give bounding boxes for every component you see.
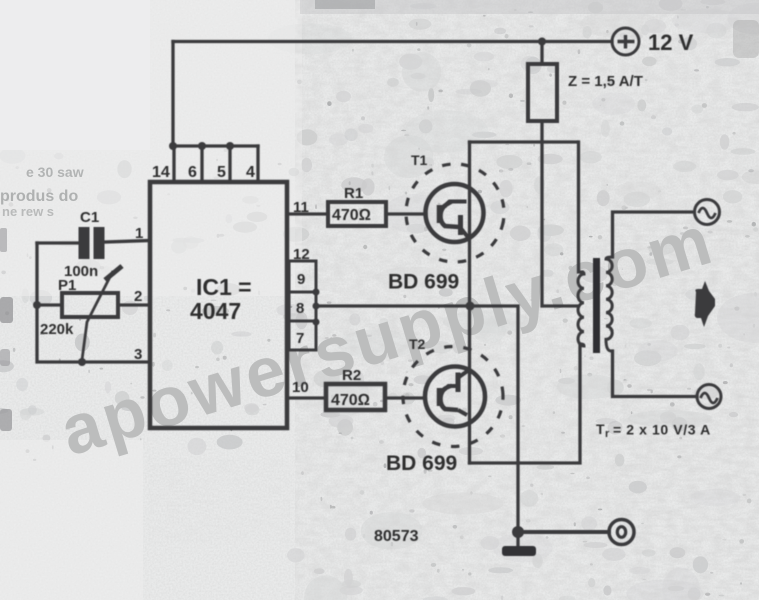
svg-text:14: 14 [152, 164, 170, 181]
svg-text:7: 7 [296, 330, 304, 347]
svg-text:8: 8 [296, 300, 304, 317]
svg-text:e 30 saw: e 30 saw [26, 164, 84, 180]
svg-text:4047: 4047 [190, 298, 241, 324]
svg-text:ne rew s: ne rew s [2, 204, 54, 219]
svg-text:R1: R1 [344, 185, 363, 202]
svg-text:Z = 1,5 A/T: Z = 1,5 A/T [568, 73, 643, 90]
svg-text:2: 2 [134, 288, 142, 305]
svg-text:12: 12 [293, 246, 310, 263]
svg-text:4: 4 [246, 164, 255, 181]
svg-text:3: 3 [134, 346, 142, 363]
svg-text:11: 11 [293, 199, 309, 216]
svg-text:BD 699: BD 699 [386, 452, 457, 475]
svg-text:produs do: produs do [0, 188, 78, 205]
svg-text:C1: C1 [80, 209, 99, 226]
svg-text:IC1 =: IC1 = [196, 274, 252, 300]
svg-text:T: T [596, 421, 605, 437]
svg-text:T1: T1 [411, 152, 428, 168]
svg-text:220k: 220k [40, 321, 74, 338]
svg-text:P1: P1 [58, 277, 76, 294]
svg-text:BD 699: BD 699 [388, 271, 459, 294]
svg-text:R2: R2 [342, 367, 361, 384]
svg-text:470Ω: 470Ω [332, 207, 371, 224]
svg-text:5: 5 [217, 164, 226, 181]
svg-text:= 2 x 10 V/3 A: = 2 x 10 V/3 A [613, 422, 711, 438]
svg-text:12 V: 12 V [648, 30, 694, 55]
svg-text:T2: T2 [409, 336, 426, 352]
svg-text:10: 10 [292, 379, 309, 396]
svg-text:9: 9 [297, 271, 305, 288]
svg-text:6: 6 [188, 164, 197, 181]
svg-text:r: r [605, 428, 610, 440]
svg-text:470Ω: 470Ω [331, 392, 370, 409]
svg-text:80573: 80573 [374, 528, 419, 545]
svg-text:1: 1 [135, 225, 143, 242]
